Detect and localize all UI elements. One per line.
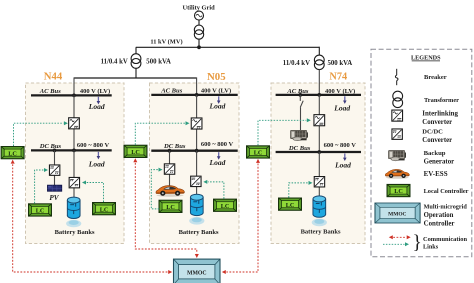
svg-text:500 kVA: 500 kVA — [328, 60, 353, 67]
svg-text:N05: N05 — [207, 71, 226, 83]
N05 comm link LC-EV converter — [151, 170, 159, 209]
N74 AC bus — [276, 94, 361, 96]
svg-text:Utility Grid: Utility Grid — [183, 5, 216, 12]
svg-text:400 V (LV): 400 V (LV) — [325, 88, 355, 95]
junction utility-MV bus — [197, 45, 201, 49]
N44 battery DC/DC converter — [69, 177, 79, 187]
N74 generator branch junction — [298, 93, 302, 97]
N74 junction main-DC bus — [317, 150, 321, 154]
svg-text:Communication: Communication — [423, 236, 467, 243]
wire MV bus corner to T2 — [318, 47, 320, 55]
svg-text:Load: Load — [209, 158, 226, 167]
svg-text:Battery Banks: Battery Banks — [179, 229, 219, 236]
N05 comm link LC-battery converter — [208, 182, 224, 199]
comm link MMOC-LC1 (red) — [11, 160, 15, 164]
N05 EV-ESS car — [156, 186, 184, 197]
N44 comm link LC-battery converter — [87, 183, 104, 203]
N44 PV branch junction — [53, 149, 57, 153]
N74 AC load arrow — [344, 96, 346, 100]
N44 AC load arrow — [97, 97, 99, 101]
svg-text:Converter: Converter — [422, 119, 452, 126]
N44 local controller LC (PV) — [29, 204, 52, 216]
svg-text:Controller: Controller — [424, 221, 455, 228]
N74 DC bus — [276, 151, 361, 153]
N74 junction main-AC bus — [317, 93, 321, 97]
legend backup generator symbol — [389, 151, 407, 161]
external local controller LC2 (N05) — [124, 145, 147, 157]
N44 battery reflection — [66, 220, 81, 228]
legend breaker symbol — [396, 69, 398, 75]
svg-text:11/0.4 kV: 11/0.4 kV — [101, 59, 128, 66]
svg-text:Local Controller: Local Controller — [424, 188, 469, 195]
comm link MMOC-LC3 (red) — [256, 159, 260, 163]
N05 wire AC bus to DC bus — [196, 95, 198, 151]
legend DC/DC converter symbol — [392, 129, 402, 139]
N05 local controller LC (EV) — [159, 200, 182, 212]
wire grid to transformer T0 — [198, 20, 200, 25]
N05 battery bank — [190, 194, 203, 215]
svg-text:Transformer: Transformer — [424, 97, 459, 104]
N44 wire DC bus to battery — [73, 150, 75, 197]
N74 wire AC bus to DC bus — [318, 95, 320, 152]
svg-text:600 ~ 800 V: 600 ~ 800 V — [324, 142, 357, 149]
legend MMOC symbol — [375, 203, 420, 223]
svg-text:N74: N74 — [329, 72, 347, 83]
N44 wire DC bus to PV — [54, 150, 56, 185]
microgrid N44 boundary box — [26, 83, 125, 244]
N05 DC load arrow — [218, 152, 220, 156]
comm link MMOC-LC2 (red) — [133, 158, 137, 162]
external local controller LC1 (N44) — [1, 147, 24, 159]
svg-text:PV: PV — [49, 194, 59, 202]
N74 wire DC bus to battery — [318, 152, 320, 196]
N05 local controller LC (battery) — [214, 199, 237, 211]
N44 DC bus — [31, 149, 112, 151]
svg-text:AC Bus: AC Bus — [39, 88, 62, 95]
multi-microgrid operation controller MMOC — [174, 259, 221, 283]
N74 backup generator — [291, 130, 309, 140]
legends box — [371, 49, 472, 257]
comm link LC2-interlinking N05 — [135, 123, 185, 145]
svg-text:DC Bus: DC Bus — [288, 145, 311, 152]
N44 PV panel — [48, 185, 62, 191]
svg-text:Load: Load — [334, 161, 351, 170]
N44 DC load arrow — [97, 152, 99, 156]
svg-text:MMOC: MMOC — [388, 211, 406, 217]
N74 local controller LC (battery) — [279, 198, 302, 210]
MV bus 11 kV — [136, 46, 319, 48]
svg-text:11 kV (MV): 11 kV (MV) — [150, 39, 182, 46]
N74 interlinking converter — [314, 115, 325, 126]
svg-text:Breaker: Breaker — [424, 74, 447, 81]
svg-text:500 kVA: 500 kVA — [146, 59, 171, 66]
N05 EV DC/DC converter — [164, 164, 174, 174]
N74 DC load arrow — [344, 154, 346, 158]
svg-text:N44: N44 — [44, 71, 63, 83]
svg-text:600 ~ 800 V: 600 ~ 800 V — [77, 142, 110, 149]
svg-text:DC Bus: DC Bus — [163, 143, 186, 150]
legend interlinking converter symbol — [392, 110, 403, 121]
svg-text:400 V (LV): 400 V (LV) — [201, 88, 231, 95]
svg-text:Links: Links — [423, 243, 439, 250]
N44 battery bank — [67, 197, 80, 218]
comm link LC3-interlinking N74 — [258, 120, 306, 145]
N44 junction main-DC bus — [72, 149, 76, 153]
svg-text:EV-ESS: EV-ESS — [424, 170, 448, 178]
N74 comm link LC-battery converter — [289, 183, 308, 198]
N05 wire DC bus to EV — [169, 151, 171, 187]
legend communication link green arrow — [383, 243, 405, 245]
svg-text:Multi-microgrid: Multi-microgrid — [424, 203, 468, 210]
N44 AC bus — [31, 94, 112, 96]
N05 junction main-DC bus — [195, 149, 199, 153]
N05 AC bus — [151, 94, 237, 96]
svg-text:AC Bus: AC Bus — [286, 88, 309, 95]
svg-text:Load: Load — [333, 103, 350, 112]
svg-text:Generator: Generator — [424, 159, 455, 166]
N44 interlinking converter — [69, 118, 80, 129]
svg-text:Operation: Operation — [424, 212, 454, 219]
svg-text:DC/DC: DC/DC — [422, 129, 443, 136]
svg-text:MMOC: MMOC — [187, 270, 207, 276]
N74 wire breaker to generator — [300, 107, 302, 131]
N44 local controller LC (battery) — [93, 203, 116, 215]
N05 battery DC/DC converter — [191, 176, 201, 186]
svg-text:600 ~ 800 V: 600 ~ 800 V — [201, 141, 234, 148]
N44 PV DC/DC converter — [49, 165, 59, 175]
N05 interlinking converter — [191, 118, 202, 129]
svg-text:LEGENDS: LEGENDS — [411, 54, 441, 61]
N74 battery bank — [313, 196, 326, 217]
transformer T1 500 kVA — [131, 54, 141, 64]
external local controller LC3 (N74) — [247, 146, 270, 158]
svg-text:}: } — [413, 233, 422, 254]
svg-text:Load: Load — [88, 160, 105, 169]
svg-text:400 V (LV): 400 V (LV) — [80, 88, 110, 95]
N05 wire DC bus to battery — [196, 151, 198, 194]
N44 wire AC bus to DC bus — [73, 95, 75, 150]
N44 comm link LC-PV converter — [35, 170, 44, 203]
N05 DC bus — [151, 150, 237, 152]
N05 EV branch junction — [168, 149, 172, 153]
N44 junction main-AC bus — [72, 94, 76, 98]
svg-text:AC Bus: AC Bus — [160, 88, 183, 95]
svg-text:DC Bus: DC Bus — [39, 143, 62, 150]
svg-text:11/0.4 kV: 11/0.4 kV — [283, 60, 310, 67]
wire T0 to MV bus — [198, 39, 200, 47]
N74 wire AC bus to breaker — [299, 95, 301, 101]
AC source G1 (utility grid) — [195, 11, 204, 20]
legend EV-ESS symbol — [385, 169, 409, 178]
svg-text:Load: Load — [88, 102, 105, 111]
svg-text:Converter: Converter — [422, 137, 452, 144]
wire drop into N44 — [73, 77, 75, 95]
LV distribution line to N44 and N05 — [74, 77, 197, 79]
wire drop into N05 — [196, 77, 198, 95]
svg-text:Battery Banks: Battery Banks — [301, 228, 341, 235]
legend communication link red arrow — [389, 235, 393, 239]
svg-text:Backup: Backup — [424, 150, 446, 157]
legend transformer symbol — [393, 91, 403, 101]
N74 breaker blade — [300, 101, 303, 108]
N05 battery reflection — [189, 217, 204, 225]
microgrid N05 boundary box — [150, 83, 240, 244]
wire MV bus to T1 — [135, 47, 137, 54]
N05 AC load arrow — [218, 96, 220, 100]
transformer T2 500 kVA — [314, 55, 324, 65]
N05 junction main-AC bus — [195, 93, 199, 97]
transformer T0 (utility) — [194, 25, 203, 34]
svg-text:Battery Banks: Battery Banks — [55, 229, 95, 236]
wire T2 to N74 AC bus — [318, 70, 320, 95]
wire T1 down — [135, 68, 137, 78]
N74 battery DC/DC converter — [314, 177, 324, 187]
svg-text:Interlinking: Interlinking — [422, 110, 458, 117]
svg-text:Load: Load — [209, 102, 226, 111]
comm link LC1-interlinking N44 — [14, 123, 64, 146]
legend LC symbol — [387, 184, 410, 196]
N74 battery reflection — [312, 219, 327, 227]
microgrid N74 boundary box — [271, 83, 365, 244]
